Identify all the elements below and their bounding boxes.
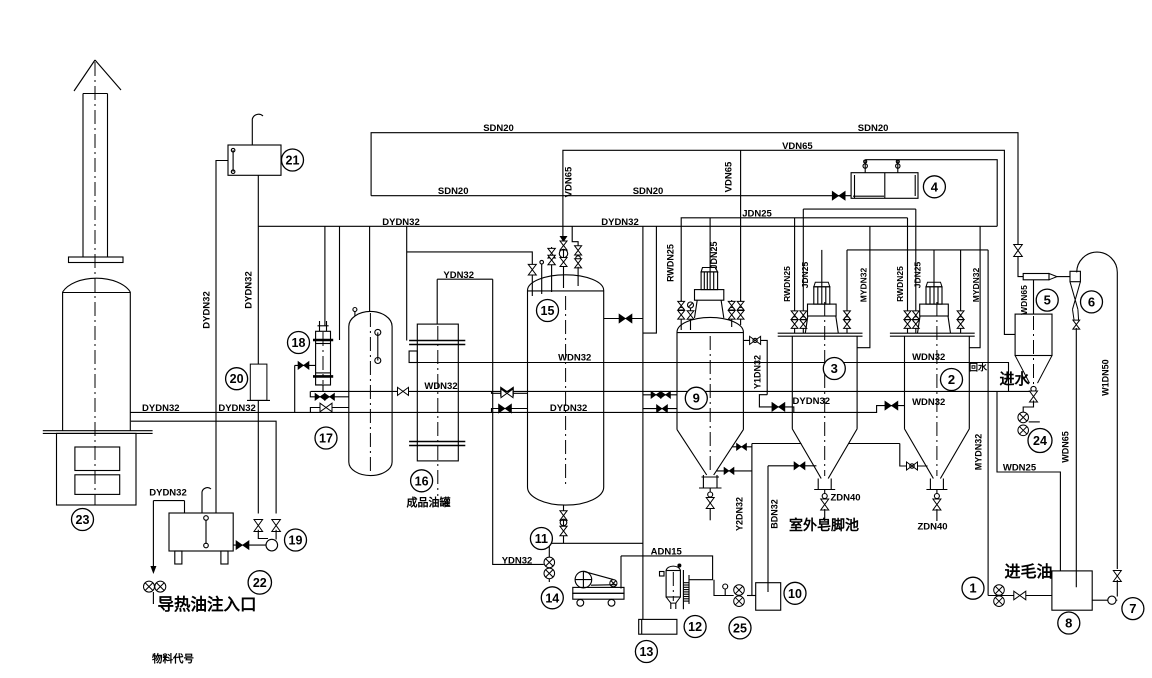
pipe pump14 suction	[620, 556, 622, 589]
vessel 3 body	[792, 336, 857, 478]
vessel 12 centerline	[672, 572, 674, 601]
vessel15 bottom drain	[549, 505, 643, 557]
vessel9 left stub upper	[643, 391, 677, 398]
pump box 8	[1052, 571, 1092, 610]
svg-text:物料代号: 物料代号	[152, 652, 194, 665]
tank 16 top flange	[409, 341, 465, 345]
svg-text:23: 23	[76, 513, 90, 527]
pipe tank22 feed	[153, 501, 184, 568]
tank 22 hook	[202, 488, 211, 513]
pipe riser to vessel17 top	[369, 226, 371, 312]
svg-text:VDN65: VDN65	[724, 161, 735, 192]
tank 16 body	[417, 324, 458, 461]
vessel9 left stub lower	[643, 405, 677, 413]
pipe YDN32 loop	[437, 279, 544, 564]
pipe branch y251 to vessel15	[407, 252, 533, 265]
balloon 25	[729, 617, 751, 639]
svg-text:YDN32: YDN32	[443, 270, 474, 281]
vessel9 cone stub2	[716, 467, 752, 474]
svg-text:MYDN32: MYDN32	[974, 434, 984, 471]
vessel 2 outlet flange	[926, 479, 947, 490]
box 10	[756, 583, 781, 611]
vessel 17 body	[349, 311, 392, 475]
svg-text:19: 19	[289, 534, 303, 548]
balloon 2	[941, 369, 963, 391]
vessel 3 outlet flange	[814, 479, 835, 490]
balloon 3	[823, 358, 845, 380]
box 13 tray	[639, 619, 677, 634]
svg-text:22: 22	[253, 576, 267, 590]
svg-text:成品油罐: 成品油罐	[407, 495, 451, 509]
svg-text:4: 4	[931, 179, 939, 194]
stub row upper col18-v17	[310, 391, 349, 400]
pipe riser to column18 top	[324, 226, 326, 325]
balloon 12	[684, 616, 706, 638]
vessel 9 motor	[695, 218, 724, 318]
vessel 2 drain ZDN40	[933, 490, 941, 522]
vessel 17 top pin	[353, 308, 357, 317]
tank 22 gauge	[204, 516, 209, 548]
condenser 4 vent stems	[863, 160, 900, 173]
flowmeters on YDN32	[544, 557, 555, 582]
pipe frame line y250	[847, 249, 988, 251]
condenser 4 body	[851, 173, 918, 199]
filter 20 body	[250, 364, 267, 400]
svg-text:5: 5	[1044, 293, 1051, 308]
svg-text:JDN25: JDN25	[913, 262, 923, 289]
vessel2 lid valve right	[957, 250, 964, 333]
balloon 16	[411, 470, 433, 492]
vessel15 top valve stack x551	[548, 247, 555, 292]
chimney stack tube	[83, 94, 108, 258]
vessel 2 motor	[918, 250, 951, 333]
svg-text:DYDN32: DYDN32	[149, 488, 187, 499]
pipe header y209	[803, 208, 916, 210]
ejector 6 venturi	[1070, 271, 1080, 329]
svg-text:14: 14	[545, 591, 559, 605]
valve water line right of vessel17	[398, 387, 409, 395]
vessel2 cone stub	[900, 444, 928, 471]
svg-text:回水: 回水	[969, 362, 988, 373]
vessel 2 centerline	[936, 302, 938, 476]
column 18 centerline	[322, 332, 324, 384]
vessel9 lid valves right	[728, 300, 744, 327]
balloon 18	[288, 332, 310, 354]
svg-text:WDN32: WDN32	[912, 397, 945, 408]
svg-text:17: 17	[319, 432, 333, 446]
pipe SDN20 into nozzle	[1018, 274, 1023, 277]
svg-text:20: 20	[230, 372, 244, 386]
column 18 lower left pipe	[316, 385, 323, 392]
svg-text:MYDN32: MYDN32	[971, 267, 981, 302]
valve SDN20 into box4	[832, 191, 845, 200]
chimney burner rect 1	[75, 447, 120, 471]
pipe DYDN32 main header y412	[130, 406, 904, 413]
vessel15 left stub lower	[492, 404, 528, 413]
vessel2 lid valves left	[904, 209, 919, 333]
balloon 1	[962, 577, 984, 599]
vessel 15 body	[528, 275, 604, 505]
vessel9 cone stub1	[732, 443, 752, 450]
svg-text:15: 15	[541, 304, 555, 318]
pipe MYDN32 riser to pump8	[987, 250, 989, 596]
pipe ADN15	[621, 556, 713, 580]
balloon 23	[72, 509, 94, 531]
vessel 3 motor	[805, 250, 838, 333]
valve on Y1DN32 jog	[772, 402, 785, 411]
balloon 19	[285, 529, 307, 551]
svg-text:1: 1	[969, 581, 976, 596]
pump 7 circle	[1092, 596, 1117, 604]
pipe MYDN32 drop to vessel3	[857, 226, 870, 347]
svg-text:3: 3	[831, 361, 838, 376]
svg-text:21: 21	[286, 154, 300, 168]
balloon 7	[1122, 598, 1144, 620]
svg-text:BDN32: BDN32	[770, 499, 780, 529]
pipe BDN32 riser	[767, 466, 769, 592]
svg-text:7: 7	[1129, 601, 1136, 616]
vessel15 center valve assembly VDN65	[559, 236, 567, 288]
tank 16 bottom flange	[409, 442, 465, 446]
svg-text:WDN32: WDN32	[558, 352, 591, 363]
expansion tank 21 body	[228, 145, 281, 175]
pipe tank21 left outlet to riser	[216, 161, 228, 514]
pipe WDN25	[997, 391, 1060, 571]
vessel9 lid valves left	[678, 300, 694, 330]
column 18 body	[316, 331, 331, 385]
tank 16 centerline	[437, 326, 439, 496]
pipe riser right of column18	[339, 226, 341, 340]
svg-text:RWDN25: RWDN25	[895, 266, 905, 302]
column 18 top cap	[318, 321, 329, 331]
balloon 11	[530, 528, 552, 550]
chimney vessel body	[63, 292, 131, 431]
svg-text:JDN25: JDN25	[742, 208, 772, 219]
oil inject flowmeters	[144, 581, 166, 604]
link riser x643 to x656	[643, 226, 657, 333]
vessel 2 lid	[890, 333, 975, 336]
balloon 21	[282, 149, 304, 171]
vessel15 right stub y318	[604, 314, 643, 323]
vessel 17 level gauge	[375, 329, 381, 363]
vessel 9 centerline	[709, 336, 711, 473]
tank 16 left stub box	[409, 351, 417, 363]
column 18 left stub with valve	[295, 361, 316, 412]
balloon 9	[685, 387, 707, 409]
vessel 3 drain ZDN40	[821, 490, 829, 522]
arrow down oil inject	[150, 566, 156, 574]
svg-text:ZDN40: ZDN40	[831, 493, 861, 504]
valve on SDN20 drop	[1014, 245, 1023, 257]
balloon 20	[226, 368, 248, 390]
pipe W1DN50 arc	[1077, 252, 1118, 569]
chimney centerline	[94, 62, 96, 505]
vessel 2 body	[905, 336, 970, 478]
svg-text:10: 10	[788, 587, 802, 601]
svg-text:DYDN32: DYDN32	[244, 271, 255, 309]
vessel 9 drain valve	[706, 488, 714, 520]
vessel 9 body	[677, 317, 743, 475]
vessel15 left stub upper	[492, 389, 528, 398]
tank 21 vent hook	[252, 114, 263, 145]
svg-text:YDN32: YDN32	[502, 555, 533, 566]
vessel 3 centerline	[824, 302, 826, 476]
valve crude inlet	[1014, 591, 1026, 600]
filter 25 group	[723, 584, 756, 607]
pipe long riser x643	[642, 226, 644, 619]
vessel15 top gauge	[540, 260, 544, 294]
svg-text:VDN65: VDN65	[564, 166, 575, 197]
pipe JDN25 header y218	[681, 218, 907, 303]
vessel 17 centerline	[369, 313, 371, 474]
tank 22 body	[169, 513, 233, 551]
svg-text:VDN65: VDN65	[782, 141, 813, 152]
chimney flange	[69, 257, 124, 263]
balloon 15	[537, 300, 559, 322]
svg-text:RWDN25: RWDN25	[665, 244, 675, 282]
vessel3 cone stub BDN32	[768, 462, 816, 470]
chimney vessel dome	[63, 278, 131, 292]
pipe Y2DN32 riser	[751, 444, 753, 596]
svg-text:Y2DN32: Y2DN32	[735, 497, 745, 531]
svg-text:MYDN32: MYDN32	[858, 267, 868, 302]
balloon 22	[248, 571, 271, 594]
svg-text:RWDN25: RWDN25	[782, 266, 792, 302]
svg-text:WDN25: WDN25	[1003, 463, 1037, 474]
pipe VDN65 riser to vessel9	[740, 150, 742, 302]
pipe vessel12 to filter 25	[714, 580, 734, 596]
balloon 13	[635, 641, 657, 663]
svg-text:ADN15: ADN15	[651, 546, 683, 557]
svg-text:DYDN32: DYDN32	[601, 217, 639, 228]
svg-text:12: 12	[688, 620, 702, 634]
vessel3 lid valve right	[844, 250, 851, 333]
vessel5 drain and filters 24	[1018, 386, 1040, 435]
balloon 10	[784, 582, 806, 604]
balloon 8	[1058, 612, 1080, 634]
svg-text:16: 16	[415, 474, 429, 488]
svg-text:6: 6	[1088, 294, 1095, 309]
svg-text:WDN32: WDN32	[424, 381, 457, 392]
svg-text:ZDN40: ZDN40	[917, 522, 947, 533]
pipe WDN32 header y362	[409, 363, 1008, 392]
pipe DYDN32 riser from tank 21 bottom	[257, 175, 259, 364]
vessel 5 body	[1015, 314, 1052, 383]
svg-text:SDN20: SDN20	[858, 123, 889, 134]
balloon 24	[1028, 429, 1052, 453]
pipe SDN20 no1 y133	[371, 133, 1018, 274]
column 18 bottom flange	[313, 373, 333, 377]
svg-text:11: 11	[535, 532, 548, 546]
vessel9 right stub Y1DN32	[743, 336, 767, 394]
balloon 6	[1081, 291, 1103, 313]
pump 14 body	[573, 571, 624, 606]
chimney stack vessel 23 arrow top	[74, 60, 121, 94]
svg-text:8: 8	[1065, 616, 1072, 631]
pipe DYDN32 second header y421	[131, 421, 276, 513]
vessel 9 outlet flange	[699, 475, 722, 488]
valve on riser x258	[254, 520, 263, 532]
svg-text:进水: 进水	[999, 370, 1030, 388]
balloon 14	[541, 587, 563, 609]
svg-text:13: 13	[639, 645, 653, 659]
pipe DYDN32 top header y226	[258, 225, 997, 227]
ejector nozzle horizontal	[1023, 274, 1070, 280]
svg-text:导热油注入口: 导热油注入口	[158, 594, 257, 614]
vessel 15 centerline	[565, 296, 567, 485]
pipe riser DYDN32 into vessel2 side	[969, 226, 980, 347]
filters at crude inlet	[988, 585, 1052, 607]
vessel 3 lid	[778, 333, 863, 336]
chimney base box	[57, 433, 137, 505]
svg-text:WDN65: WDN65	[1019, 285, 1029, 315]
svg-text:2: 2	[948, 372, 955, 387]
svg-text:JDN25: JDN25	[800, 262, 810, 289]
tank 21 level gauge	[231, 148, 235, 173]
svg-text:DYDN32: DYDN32	[218, 403, 256, 414]
pump 19 group	[233, 530, 277, 551]
svg-text:WDN65: WDN65	[1061, 431, 1071, 463]
pipe riser below filter 20	[257, 400, 259, 513]
svg-text:室外皂脚池: 室外皂脚池	[789, 517, 859, 533]
svg-text:WDN32: WDN32	[912, 352, 945, 363]
chimney burner rect 2	[75, 475, 120, 495]
vessel3 lid valves left	[791, 209, 807, 333]
pipe box4 stems header	[865, 160, 997, 227]
vessel15 right valve stack x577	[572, 226, 581, 286]
tank 22 legs	[175, 551, 228, 564]
svg-text:Y1DN32: Y1DN32	[753, 355, 763, 389]
svg-text:25: 25	[733, 621, 747, 635]
pipe Y1DN32 jog segment	[759, 395, 793, 413]
svg-text:DYDN32: DYDN32	[382, 217, 420, 228]
balloon 4	[923, 176, 945, 198]
svg-text:24: 24	[1033, 434, 1047, 448]
pipe y443 link	[752, 443, 900, 445]
vessel 12 coil	[683, 570, 689, 609]
pipe vessel5 to ejector	[1033, 280, 1035, 314]
vessel 5 centerline	[1033, 316, 1035, 388]
svg-text:DYDN32: DYDN32	[202, 291, 213, 329]
valve water line left of vessel15	[501, 387, 514, 396]
svg-text:SDN20: SDN20	[483, 123, 514, 134]
svg-text:9: 9	[693, 391, 700, 406]
svg-text:SDN20: SDN20	[438, 186, 469, 197]
column 18 top flange	[313, 340, 333, 344]
svg-text:SDN20: SDN20	[633, 186, 664, 197]
pipe from DYDN32 down at x406	[406, 226, 408, 340]
balloon 5	[1036, 289, 1058, 311]
svg-text:进毛油: 进毛油	[1004, 562, 1052, 581]
stub row lower col18-v17	[310, 403, 348, 412]
svg-text:DYDN32: DYDN32	[142, 403, 180, 414]
svg-text:18: 18	[292, 336, 306, 350]
vessel 12 body	[660, 564, 682, 610]
vessel15 top valve x532	[528, 264, 536, 296]
pipe water line y391	[311, 390, 1034, 392]
svg-text:W1DN50: W1DN50	[1101, 359, 1111, 396]
pipe VDN65 y150	[563, 150, 1015, 334]
svg-text:JDN25: JDN25	[709, 241, 719, 269]
valve on DYDN32 into vessel 2	[885, 401, 898, 410]
filter 20 bottom tick	[247, 399, 270, 401]
pipe WDN65 riser from ejector	[1075, 328, 1077, 587]
valve on W1DN50	[1113, 571, 1121, 597]
balloon 17	[315, 427, 337, 449]
svg-text:DYDN32: DYDN32	[550, 403, 588, 414]
pipe SDN20 no2 y196	[371, 195, 851, 197]
chimney pedestal plate	[43, 431, 153, 434]
valve on riser x276	[272, 520, 281, 532]
